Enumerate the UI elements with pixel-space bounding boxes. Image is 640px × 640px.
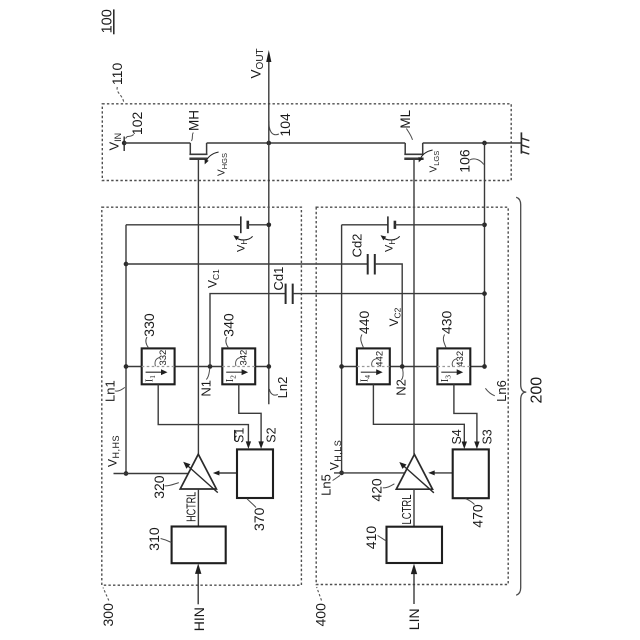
battery VH (LS) [388, 216, 395, 233]
block 410 [387, 527, 443, 563]
node Ln1/lineA junction [124, 262, 129, 267]
svg-text:340: 340 [221, 313, 237, 337]
wire HS current-source row [126, 366, 269, 368]
leader 470 [466, 499, 475, 505]
leader 106 [470, 159, 484, 165]
node battery-Ln6 junction [482, 222, 487, 227]
leader N1 [206, 369, 210, 380]
arrow VHGS [206, 152, 219, 162]
svg-text:100: 100 [99, 9, 115, 33]
leader 410 [378, 536, 387, 542]
node Ln5/row junction [339, 364, 344, 369]
current source arrow 332 [146, 369, 168, 375]
wire Ln1 rail [125, 225, 127, 474]
svg-text:S4: S4 [450, 429, 464, 444]
node 106 junction [482, 141, 487, 146]
leader Ln2 [269, 389, 277, 395]
node N2 [400, 364, 405, 369]
leader Ln5 [333, 475, 341, 480]
op-amp 320 (variable driver) [180, 454, 216, 489]
wire LIN input [411, 564, 417, 604]
leader N2 [401, 369, 403, 380]
enclosure 110 (power stage dashed box) [102, 104, 511, 181]
svg-text:LIN: LIN [406, 608, 422, 630]
svg-text:470: 470 [470, 504, 486, 528]
leader Ln1 [115, 387, 125, 391]
svg-text:LCTRL: LCTRL [400, 494, 414, 524]
wire LCTRL : 410 to 420 [413, 489, 415, 527]
svg-text:N1: N1 [198, 380, 213, 397]
svg-text:400: 400 [313, 603, 329, 627]
svg-text:S2: S2 [264, 427, 278, 442]
enclosure 400 (LS driver dashed box) [316, 207, 508, 584]
node row-Ln6 junction [482, 364, 487, 369]
wire VH,HS stub to op-amp 320 [114, 473, 189, 475]
svg-text:Ln6: Ln6 [494, 380, 509, 402]
svg-text:200: 200 [529, 377, 546, 404]
current source block 430 [437, 348, 470, 384]
wire VC1 : N1 to Cd1 [210, 294, 286, 367]
brace 200 [516, 197, 526, 595]
wire VH battery (HS) left [126, 224, 241, 226]
leader 102 [126, 135, 134, 139]
arrow VH (HS) [236, 236, 253, 240]
wire Ln6 (ground rail into LS driver) [484, 143, 486, 367]
wire HIN input [195, 563, 201, 604]
node VH,HS junction [124, 471, 129, 476]
svg-text:N2: N2 [393, 379, 408, 396]
wire MH gate to driver 320 output [197, 159, 199, 455]
leader 110 [117, 87, 124, 103]
node lineB-Ln6 junction [482, 291, 487, 296]
transistor ML [404, 143, 423, 159]
wire VH battery (LS) left [342, 224, 388, 226]
wire Ln5 rail [341, 225, 343, 473]
adjust arrow through 420 [399, 462, 434, 493]
wire VIN to MH drain [124, 142, 190, 144]
wire S3 [454, 384, 477, 442]
current source block 340 [222, 348, 255, 384]
wire 370 to 320 input [213, 471, 237, 476]
svg-text:420: 420 [368, 478, 384, 502]
leader MH [192, 133, 194, 142]
svg-text:320: 320 [151, 475, 167, 499]
current source arrow 432 [441, 369, 463, 375]
leader 332 [155, 358, 160, 367]
svg-text:330: 330 [141, 313, 157, 337]
current source arrow 342 [226, 369, 248, 375]
wire 470 to 420 input [428, 470, 453, 475]
node switch/VOUT junction [266, 141, 271, 146]
svg-text:Ln5: Ln5 [319, 474, 334, 496]
leader 442 [372, 359, 377, 367]
node battery-Ln2 junction [266, 222, 271, 227]
svg-text:310: 310 [146, 527, 162, 551]
wire LS current-source row [342, 366, 485, 368]
wire S1 [158, 384, 248, 442]
wire VC2 : Cd2 to N2 [375, 264, 402, 367]
svg-text:HIN: HIN [191, 607, 207, 631]
svg-text:102: 102 [129, 112, 145, 136]
wire S2 [239, 384, 261, 442]
leader 330 [146, 337, 149, 348]
leader 340 [226, 337, 229, 348]
capacitor Cd2 [368, 254, 375, 275]
node N1 [208, 364, 213, 369]
op-amp 420 (variable driver) [396, 454, 432, 489]
leader 300 [103, 588, 109, 601]
leader 342 [236, 358, 241, 367]
battery VH (HS) [241, 216, 248, 233]
figure label 100 [99, 9, 115, 34]
block 370 [237, 449, 273, 498]
svg-text:300: 300 [100, 603, 116, 627]
node row-Ln2 junction [266, 364, 271, 369]
label S1 (with overline) [233, 428, 247, 443]
wire ML to ground [423, 142, 522, 144]
node VIN input terminal [122, 137, 127, 152]
svg-text:Cd2: Cd2 [349, 234, 364, 258]
leader Ln6 [485, 388, 494, 396]
svg-text:110: 110 [109, 63, 125, 86]
leader 320 [165, 483, 179, 486]
wire MH to ML (switch node) [207, 142, 406, 144]
row chain-line through 330 [142, 366, 175, 368]
node VH,LS junction [339, 471, 344, 476]
transistor MH [189, 143, 207, 159]
leader 310 [161, 539, 172, 543]
wire S4 [373, 384, 464, 442]
row chain-line through 440 [357, 366, 390, 368]
svg-text:370: 370 [251, 507, 267, 531]
capacitor Cd1 [286, 284, 293, 304]
block 470 [453, 449, 489, 498]
leader 370 [247, 499, 256, 508]
wire VH,LS stub to op-amp 420 [334, 472, 405, 474]
node Ln1/row junction [124, 364, 129, 369]
leader 420 [383, 484, 395, 488]
block 310 [172, 527, 226, 564]
wire ML gate to driver 420 output [413, 159, 415, 455]
wire line B : Cd1 to Ln6 [293, 293, 485, 295]
row chain-line through 340 [222, 366, 255, 368]
wire VH battery (LS) right [395, 224, 485, 226]
current source block 330 [142, 348, 175, 384]
wire line A : Ln1 rail to Cd2 [126, 263, 368, 265]
arrow VLGS [420, 150, 433, 160]
ground [521, 132, 529, 154]
svg-text:106: 106 [457, 149, 473, 173]
wire VH battery (HS) right [248, 224, 269, 226]
current source arrow 442 [361, 369, 383, 375]
svg-text:440: 440 [356, 311, 372, 335]
leader 430 [443, 335, 446, 348]
svg-text:MH: MH [186, 110, 201, 131]
wire HCTRL : 310 to 320 [197, 489, 199, 527]
leader 440 [361, 335, 364, 348]
svg-text:HCTRL: HCTRL [184, 492, 198, 522]
leader 400 [317, 587, 322, 601]
wire VOUT output [268, 60, 270, 143]
enclosure 300 (HS driver dashed box) [102, 207, 302, 585]
svg-text:430: 430 [439, 311, 455, 335]
leader ML [406, 129, 412, 140]
wire Ln2 (switch-node rail into HS driver) [268, 143, 270, 404]
arrowhead VOUT [266, 50, 271, 62]
svg-text:410: 410 [363, 526, 379, 550]
row chain-line through 430 [437, 366, 470, 368]
svg-text:Cd1: Cd1 [271, 267, 286, 291]
leader 432 [452, 359, 457, 367]
adjust arrow through 320 [183, 462, 218, 493]
current source block 440 [357, 348, 390, 384]
arrow VH (LS) [383, 236, 400, 240]
svg-text:104: 104 [277, 113, 293, 137]
svg-text:S3: S3 [480, 429, 494, 444]
leader 104 [269, 122, 279, 135]
svg-text:ML: ML [398, 109, 413, 128]
